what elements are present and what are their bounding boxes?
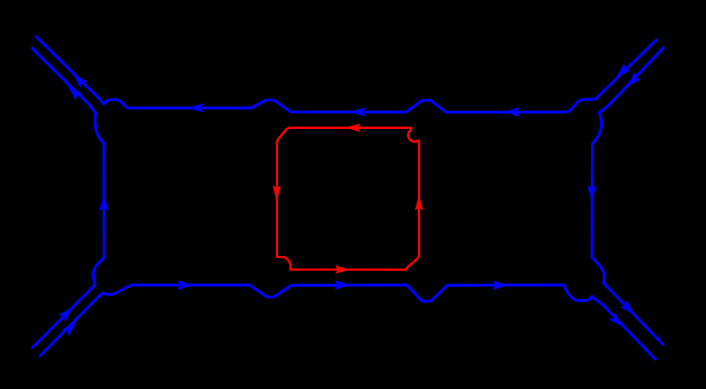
arrow left edge bbox=[100, 197, 108, 210]
wire left color line: TL outer leg, left edge, BL inner leg bbox=[32, 48, 104, 348]
arrow red bottom edge bbox=[336, 266, 349, 273]
arrow top edge mid bbox=[352, 108, 365, 116]
arrow red right edge bbox=[416, 197, 423, 210]
arrow BR inner leg bbox=[621, 301, 636, 316]
arrow right edge bbox=[588, 186, 596, 199]
arrow TR outer leg bbox=[625, 74, 640, 89]
arrow BR outer leg bbox=[610, 314, 625, 329]
arrow BL outer leg bbox=[63, 320, 78, 335]
arrow bottom edge mid bbox=[336, 281, 349, 289]
wire right color line: TR outer leg, right edge, BR inner leg bbox=[592, 48, 663, 345]
arrow bottom edge right bbox=[494, 281, 507, 289]
inner red color loop bbox=[277, 128, 419, 270]
arrow red top edge bbox=[347, 124, 360, 131]
arrow bottom edge left bbox=[178, 281, 191, 289]
wire bottom color line: BL outer leg, bottom edge with two hops, BR outer leg bbox=[40, 285, 655, 359]
wire top color line: TR inner leg, top edge with two hops, TL inner leg bbox=[36, 37, 656, 113]
arrow top edge left bbox=[190, 104, 203, 112]
arrow BL inner leg bbox=[59, 306, 74, 321]
arrow TL outer leg bbox=[67, 85, 82, 100]
arrow TL inner leg bbox=[71, 72, 86, 87]
arrow red left edge bbox=[273, 186, 280, 199]
arrow TR inner leg bbox=[615, 65, 630, 80]
arrow top edge right bbox=[506, 108, 519, 116]
